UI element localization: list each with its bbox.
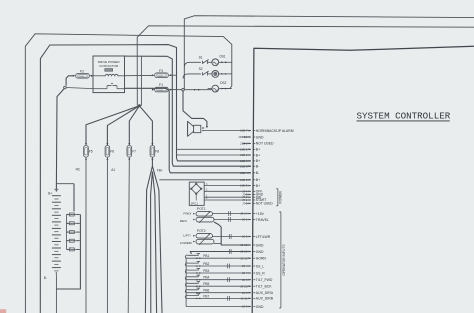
svg-text:GND: GND <box>256 250 264 254</box>
svg-text:POT2: POT2 <box>197 229 206 233</box>
svg-text:B-: B- <box>44 276 47 280</box>
svg-text:AUX_DIRB: AUX_DIRB <box>256 297 274 301</box>
svg-text:PB1: PB1 <box>203 254 209 258</box>
svg-text:F3: F3 <box>159 69 163 73</box>
svg-text:GND: GND <box>256 305 264 309</box>
svg-text:B+: B+ <box>256 148 260 152</box>
svg-text:CONTACTOR: CONTACTOR <box>99 64 119 68</box>
svg-text:B+: B+ <box>256 159 260 163</box>
svg-text:J1B 7: J1B 7 <box>240 129 248 133</box>
svg-text:PB3: PB3 <box>203 269 209 273</box>
svg-text:B+: B+ <box>256 178 260 182</box>
svg-text:SS_L: SS_L <box>256 264 264 268</box>
svg-text:B-: B- <box>256 165 259 169</box>
svg-text:POT1: POT1 <box>197 207 206 211</box>
svg-text:F6: F6 <box>110 149 114 153</box>
svg-text:PB2: PB2 <box>203 262 209 266</box>
svg-text:RC: RC <box>76 167 81 171</box>
svg-text:FB+: FB+ <box>157 168 163 172</box>
svg-text:GND: GND <box>256 243 264 247</box>
svg-text:LIFT/: LIFT/ <box>183 233 190 237</box>
svg-text:F8: F8 <box>155 149 159 153</box>
svg-text:TRAVEL: TRAVEL <box>256 218 269 222</box>
svg-text:TILT_FWD: TILT_FWD <box>256 278 273 282</box>
svg-text:DS2: DS2 <box>220 81 226 85</box>
svg-text:AUX_DIRA: AUX_DIRA <box>256 291 274 295</box>
svg-text:S2: S2 <box>199 67 203 71</box>
svg-text:S1: S1 <box>199 56 203 60</box>
svg-text:F5: F5 <box>89 149 93 153</box>
svg-text:GND: GND <box>256 135 264 139</box>
svg-text:B-: B- <box>256 171 259 175</box>
svg-text:NOT USED: NOT USED <box>256 142 274 146</box>
svg-text:PB6: PB6 <box>203 289 209 293</box>
svg-text:NOT USED: NOT USED <box>256 202 274 206</box>
svg-text:J1B 4: J1B 4 <box>240 171 248 175</box>
svg-text:PB5: PB5 <box>203 282 209 286</box>
svg-text:HORN: HORN <box>256 257 267 261</box>
svg-text:150A: 150A <box>79 75 84 78</box>
svg-text:PB7: PB7 <box>203 294 209 298</box>
svg-text:POWER: POWER <box>279 190 283 203</box>
svg-text:B+: B+ <box>256 184 260 188</box>
svg-text:REV\: REV\ <box>180 219 187 223</box>
svg-text:150A: 150A <box>158 89 163 92</box>
svg-text:PB4: PB4 <box>203 276 209 280</box>
svg-text:F1: F1 <box>159 83 163 87</box>
svg-text:J1B 8: J1B 8 <box>240 164 248 168</box>
svg-text:HORN/BACKUP ALARM: HORN/BACKUP ALARM <box>256 129 294 133</box>
svg-text:JPC1: JPC1 <box>191 202 199 206</box>
svg-text:+15V: +15V <box>256 212 265 216</box>
svg-text:J1B 6: J1B 6 <box>240 159 248 163</box>
svg-text:F7: F7 <box>132 149 136 153</box>
svg-text:J1B 1: J1B 1 <box>240 147 248 151</box>
svg-text:TILT_BCK: TILT_BCK <box>256 285 272 289</box>
svg-text:150A: 150A <box>158 74 163 77</box>
svg-text:J1B 9: J1B 9 <box>240 178 248 182</box>
svg-text:A1: A1 <box>111 168 115 172</box>
svg-text:FWD/: FWD/ <box>183 211 191 215</box>
svg-text:LFT/LWR: LFT/LWR <box>256 235 271 239</box>
svg-text:J1B 10: J1B 10 <box>238 135 248 139</box>
svg-text:B+: B+ <box>256 153 260 157</box>
svg-text:DS1: DS1 <box>220 54 226 58</box>
svg-text:LOWER\: LOWER\ <box>180 241 192 245</box>
svg-text:F2: F2 <box>80 69 84 73</box>
svg-text:SYSTEM CONTROLLER: SYSTEM CONTROLLER <box>357 110 451 121</box>
svg-text:J1B 2: J1B 2 <box>240 153 248 157</box>
svg-text:SS_R: SS_R <box>256 271 265 275</box>
svg-text:OPERATOR INPUTS: OPERATOR INPUTS <box>282 244 286 276</box>
svg-text:B+: B+ <box>48 192 52 196</box>
svg-text:J1B 3: J1B 3 <box>240 142 248 146</box>
